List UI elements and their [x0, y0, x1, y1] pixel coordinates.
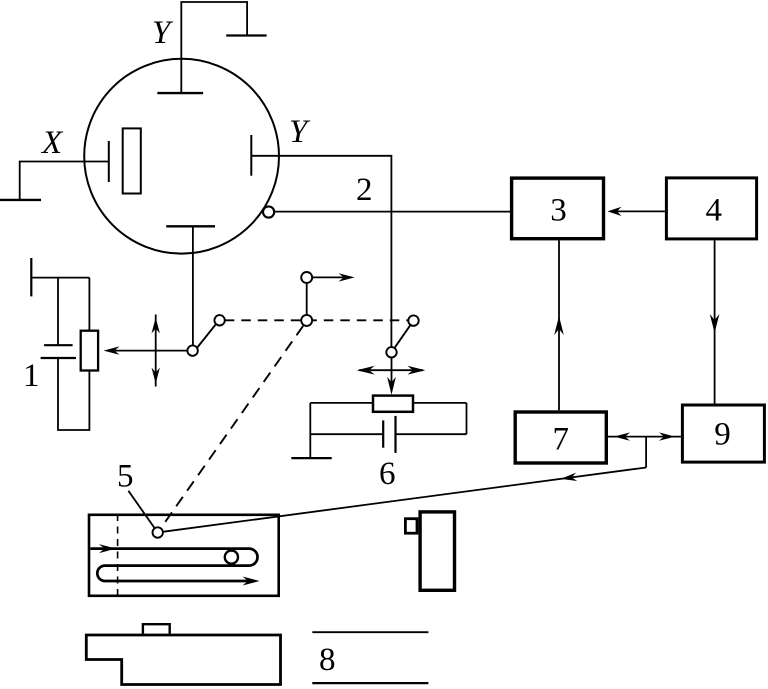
component 1: resistor box: [81, 331, 98, 371]
wire: top plate lead to top ground: [181, 2, 247, 93]
recorder chamber box: [89, 515, 279, 596]
switch S1 pivot circle: [187, 345, 197, 355]
component 6: potentiometer box: [373, 396, 413, 412]
node 2 terminal circle on CRT: [263, 206, 274, 217]
arrowhead on film line 3: [243, 577, 260, 586]
X deflection plate: [108, 141, 110, 182]
line above label 8: [312, 631, 428, 633]
wire box3 to box7 with up arrow: [558, 240, 560, 410]
svg-text:2: 2: [356, 172, 373, 208]
component 1: capacitor top bar: [44, 344, 73, 346]
svg-text:8: 8: [319, 642, 336, 678]
component 1: below resistor down and across: [58, 358, 89, 430]
adjustment double arrow (vertical): [155, 315, 157, 387]
wire: node 2 to box 3: [272, 211, 510, 213]
arrowhead on film line 1: [99, 544, 116, 553]
svg-text:7: 7: [552, 422, 569, 458]
component 6: right vertical: [466, 403, 468, 434]
switch S1 contact circle: [214, 315, 224, 325]
Y deflection plate (right): [250, 135, 252, 176]
camera tab: [405, 519, 417, 534]
switch S2 contact circle: [408, 315, 418, 325]
arrow right from upper circle: [313, 276, 345, 278]
roller circle on film path: [225, 551, 238, 564]
arrowhead on diagonal: [561, 473, 577, 481]
line below label 8: [312, 682, 428, 684]
box 3: [512, 178, 604, 239]
switch S1 arm: [197, 325, 215, 348]
long diagonal wire to photodetector 5: [164, 468, 647, 532]
pointer line from label 5: [128, 491, 154, 528]
component 1: capacitor top lead: [57, 278, 59, 346]
dashed diagonal link to recorder circle: [160, 326, 303, 529]
component 6: capacitor left bar: [382, 420, 384, 447]
indicator upper circle: [301, 272, 312, 283]
stage tab: [143, 624, 170, 635]
box 7: [515, 412, 606, 463]
box 4: [666, 178, 756, 239]
wire X plate to left ground: [20, 162, 109, 200]
svg-text:X: X: [40, 125, 64, 161]
dashed start line inside recorder: [117, 514, 119, 596]
component 6: bottom right wire: [396, 433, 467, 435]
arrow down to potentiometer 6: [391, 358, 393, 382]
circle on dashed line: [301, 315, 312, 326]
component 1: electrode bar: [30, 258, 32, 296]
ground (left) bar: [0, 199, 41, 201]
camera body (right small component): [420, 512, 454, 590]
film path serpentine: [90, 549, 257, 581]
switch S2 arm: [395, 325, 411, 348]
component 1: capacitor bottom bar: [41, 357, 76, 359]
component 6: bottom left wire: [310, 433, 382, 435]
component 1: top wire: [31, 277, 89, 279]
component 6: left vertical: [309, 403, 311, 434]
wire from 7-9 link down: [645, 437, 647, 468]
svg-text:6: 6: [379, 456, 396, 492]
top deflection plate: [157, 92, 203, 94]
wire: arrow to resistor 1: [107, 350, 187, 352]
photodetector spot circle: [153, 527, 163, 537]
indicator vertical link: [306, 284, 308, 315]
switch S2 pivot circle: [386, 347, 396, 357]
ground (component 6) bar: [291, 457, 331, 459]
adjustment double arrow (horizontal): [359, 369, 423, 371]
wire box4 to box9 with down arrow: [714, 240, 716, 403]
ground (top right) bar: [226, 34, 266, 36]
component 6: left wire: [310, 402, 373, 404]
svg-text:9: 9: [714, 417, 731, 453]
bottom deflection plate: [166, 225, 215, 227]
bidirectional arrow between 7 and 9: [608, 436, 681, 438]
wire: Y plate right then down to switch S2: [251, 156, 391, 347]
wire: bottom plate lead down to switch S1: [192, 226, 194, 345]
dashed horizontal link line: [225, 319, 408, 321]
svg-text:1: 1: [23, 358, 40, 394]
component 6: right wire: [413, 402, 467, 404]
CRT inner target electrode rect: [123, 128, 141, 193]
arrowhead left at resistor: [104, 346, 120, 354]
CRT envelope circle: [84, 59, 279, 254]
arrow from 4 to 3: [614, 210, 665, 212]
box 9: [682, 405, 764, 462]
svg-text:4: 4: [705, 193, 722, 229]
component 1: right branch down to resistor: [88, 278, 90, 331]
component 6: ground lead: [309, 434, 311, 458]
component 6: capacitor right bar: [394, 416, 396, 453]
svg-text:3: 3: [550, 193, 567, 229]
svg-text:5: 5: [117, 459, 134, 495]
stage component (bottom left) outline: [86, 635, 280, 685]
